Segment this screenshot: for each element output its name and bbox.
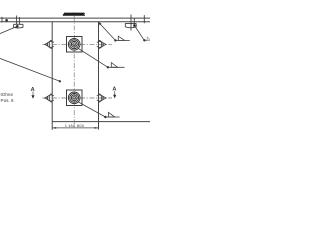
hatched pad on beam <box>63 13 85 16</box>
top bolt circles <box>68 39 80 51</box>
left end tick <box>1 17 3 23</box>
bottom-left flange bolt side view <box>45 94 54 102</box>
weld symbol 1 <box>114 39 116 41</box>
left hanger bracket body <box>14 24 23 28</box>
svg-text:A: A <box>31 87 35 93</box>
weld symbol 3 <box>104 116 106 118</box>
top-right flange bolt side view <box>97 40 106 48</box>
bottom bolt square washer plate <box>67 90 83 106</box>
plate bottom edge continuing right <box>52 121 150 123</box>
weld symbol 2 <box>107 66 109 68</box>
leader 2 top bolt to weld symbol 2 <box>78 49 108 68</box>
weld symbol at right edge <box>143 39 145 41</box>
svg-text:tOhne: tOhne <box>1 92 14 97</box>
right clamp body <box>125 23 136 27</box>
left weld dot on beam <box>5 19 8 22</box>
long leader from left edge to plate <box>0 58 60 81</box>
top-left flange bolt side view <box>45 40 54 48</box>
right clamp bolt dot <box>133 24 136 27</box>
leader 1 beam to weld symbol 1 <box>98 22 101 25</box>
leader from clamp to edge weld <box>135 26 144 40</box>
leader from left hanger <box>0 27 17 34</box>
plate left edge (with dim extension) <box>51 22 53 130</box>
right clamp verticals <box>130 15 132 31</box>
top bolt horizontal centerline <box>43 43 113 45</box>
svg-text:Pos. 6: Pos. 6 <box>1 98 14 103</box>
beam top flange line <box>0 17 150 19</box>
dimension line <box>52 127 98 129</box>
bottom bolt horizontal centerline <box>43 97 113 99</box>
bottom-right flange bolt side view <box>97 94 106 102</box>
left hanger bolt dot <box>16 25 19 28</box>
svg-text:1 kN/ 800: 1 kN/ 800 <box>65 123 85 128</box>
right end tick <box>143 15 145 23</box>
bottom bolt circles <box>68 92 80 104</box>
left hanger bracket verticals <box>16 16 18 25</box>
top bolt square washer plate <box>67 37 83 53</box>
leader 3 bottom bolt to weld symbol 3 <box>78 102 105 117</box>
beam bottom flange line <box>0 21 150 23</box>
plate right edge (with dim extension) <box>98 22 100 130</box>
vertical centerline <box>73 16 75 128</box>
